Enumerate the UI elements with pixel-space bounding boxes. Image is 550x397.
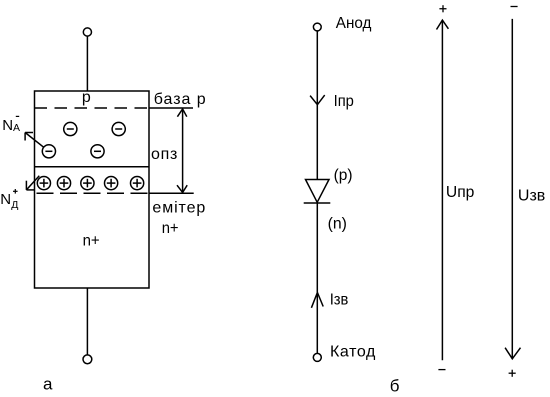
svg-text:Uпр: Uпр: [446, 184, 475, 201]
dashed lower boundary of donor layer: [37, 192, 149, 194]
svg-text:Uзв: Uзв: [518, 187, 545, 204]
boundary extension line to dimension arrow (top): [149, 107, 193, 109]
diode cathode bar: [304, 202, 331, 204]
acceptor ion circle 3: [42, 145, 55, 158]
svg-text:Катод: Катод: [330, 344, 376, 361]
svg-text:Д: Д: [11, 199, 18, 211]
wire from body to bottom terminal: [86, 288, 88, 355]
svg-text:n+: n+: [83, 232, 100, 249]
svg-text:(p): (p): [334, 167, 353, 184]
svg-text:n+: n+: [162, 220, 179, 237]
label ND (donor concentration): [0, 191, 18, 211]
voltage arrow Uzv (down): [505, 19, 520, 359]
donor ion circle 5: [131, 177, 144, 190]
superscript minus of NA label: [16, 115, 19, 117]
minus sign above Uzv arrow: [511, 6, 518, 8]
voltage arrow Upr (up): [437, 20, 449, 360]
acceptor ion circle 4: [91, 145, 104, 158]
terminal circle (base contact, top of structure): [83, 28, 91, 36]
superscript plus of ND label: [13, 189, 18, 194]
anode terminal circle: [313, 23, 321, 31]
reverse current arrowhead Izv: [311, 293, 323, 308]
acceptor ion circle 2: [112, 122, 125, 135]
svg-text:Анод: Анод: [336, 15, 372, 32]
svg-text:А: А: [13, 122, 20, 134]
boundary extension line to dimension arrow (bottom): [149, 192, 194, 194]
plus sign above Upr arrow: [439, 5, 446, 12]
svg-text:база p: база p: [154, 91, 206, 108]
anode wire: [316, 31, 318, 180]
svg-text:емітер: емітер: [152, 199, 205, 216]
terminal circle (emitter contact, bottom): [83, 355, 92, 364]
svg-text:а: а: [43, 374, 53, 393]
svg-text:Iпр: Iпр: [334, 93, 354, 110]
svg-text:(n): (n): [328, 216, 347, 233]
cathode wire: [316, 203, 318, 353]
svg-text:б: б: [390, 377, 400, 396]
minus sign below Upr arrow: [438, 369, 445, 371]
boundary line OPZ/emitter layer: [35, 166, 150, 168]
dimension arrow (OPZ width, double-headed): [177, 109, 187, 193]
plus sign below Uzv arrow: [509, 370, 516, 377]
wire from top terminal to body: [86, 36, 88, 91]
donor ion circle 1: [37, 177, 50, 190]
label NA (acceptor concentration): [2, 117, 20, 134]
svg-text:Iзв: Iзв: [330, 292, 349, 309]
svg-text:N: N: [2, 117, 13, 134]
semiconductor body rectangle: [35, 91, 150, 288]
svg-text:N: N: [0, 191, 11, 208]
svg-text:p: p: [82, 89, 91, 106]
arrow from label ND to donor ions: [26, 176, 39, 190]
donor ion circle 3: [81, 177, 94, 190]
donor ion circle 4: [105, 177, 118, 190]
forward current arrowhead Ipr: [310, 95, 325, 105]
dashed junction boundary base/OPZ: [35, 107, 150, 109]
acceptor ion circle 1: [64, 122, 77, 135]
cathode terminal circle: [313, 353, 321, 361]
donor ion circle 2: [57, 177, 70, 190]
arrow from label NA to acceptor ions: [25, 133, 43, 148]
diode VD triangle (anode): [306, 180, 330, 203]
svg-text:опз: опз: [151, 146, 177, 163]
